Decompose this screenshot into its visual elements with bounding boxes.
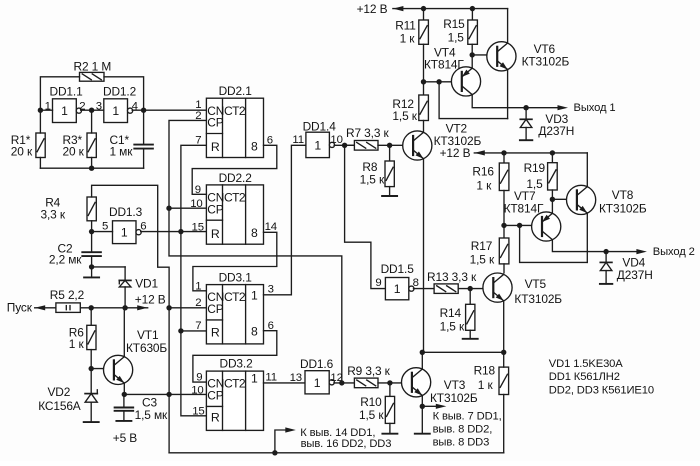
- svg-text:11: 11: [292, 134, 304, 146]
- svg-text:8: 8: [251, 139, 258, 153]
- capacitor C1* 1 uF: [110, 133, 153, 158]
- wire R13 to VT5 base: [458, 286, 493, 291]
- common tick below R8: [382, 187, 397, 196]
- svg-text:CP: CP: [207, 389, 223, 403]
- svg-text:CT2: CT2: [224, 191, 246, 205]
- common tick below R10: [382, 423, 397, 433]
- transistor VT5 KT3102B: [483, 273, 562, 306]
- wire R1 leads: [39, 110, 41, 168]
- transistor VT1 KT630B: [104, 328, 168, 384]
- svg-text:DD3.1: DD3.1: [219, 271, 253, 285]
- svg-text:1: 1: [121, 226, 128, 240]
- resistor R13 3.3 k: [427, 270, 477, 293]
- svg-text:R2 1 M: R2 1 M: [74, 59, 112, 73]
- svg-text:DD1.3: DD1.3: [109, 205, 143, 219]
- svg-text:1: 1: [251, 289, 258, 303]
- wire clock enable net DD2 (CP): [166, 120, 341, 383]
- resistor R5 2.2: [50, 288, 85, 312]
- svg-text:КТ3102Б: КТ3102Б: [522, 55, 570, 69]
- resistor R1* 20 k: [11, 133, 45, 159]
- svg-text:CT2: CT2: [224, 104, 246, 118]
- wire DD1.3 output to reset net: [141, 229, 207, 234]
- wire R4 top to +5V net: [92, 185, 170, 453]
- transistor VT6 KT3102B: [487, 42, 570, 71]
- parts list note: [549, 358, 654, 397]
- svg-text:R16: R16: [472, 164, 494, 178]
- wire +5V net to DD3.1 CP: [166, 305, 206, 310]
- DD3.1 pin labels: [195, 280, 274, 332]
- svg-text:VT8: VT8: [612, 188, 634, 202]
- svg-text:VD1 1.5KE30A: VD1 1.5KE30A: [549, 358, 623, 370]
- svg-text:1: 1: [314, 376, 321, 390]
- wire R19 bottom to VT7 emitter and VT8 base: [550, 190, 577, 213]
- svg-text:VD2: VD2: [48, 385, 71, 399]
- Пуск label and arrow: [7, 300, 45, 314]
- svg-text:VD1: VD1: [135, 276, 158, 290]
- svg-text:1: 1: [195, 280, 201, 292]
- wire R17 bottom to VT5 collector: [503, 264, 505, 273]
- svg-text:R: R: [211, 410, 220, 424]
- resistor R9 3.3 k: [347, 364, 390, 388]
- svg-text:8: 8: [413, 277, 419, 289]
- svg-text:R: R: [211, 227, 220, 241]
- resistor R2 1 M: [74, 59, 112, 81]
- svg-text:DD1.4: DD1.4: [303, 119, 337, 133]
- svg-text:8: 8: [251, 226, 258, 240]
- resistor R14 1.5 k: [440, 289, 475, 334]
- svg-text:R5 2,2: R5 2,2: [50, 288, 85, 302]
- counter DD3.1: [206, 271, 263, 344]
- +12V stage2 arrow: [474, 150, 485, 155]
- wire VT8 emitter down: [586, 213, 588, 262]
- svg-text:15: 15: [192, 221, 204, 233]
- wire +5V node to DD3.2 CP: [124, 392, 206, 397]
- svg-text:3,3 к: 3,3 к: [41, 207, 66, 221]
- wire DD1.4 output node: [334, 143, 354, 148]
- svg-text:R13 3,3 к: R13 3,3 к: [427, 270, 477, 284]
- resistor R18 1 k: [474, 364, 509, 395]
- wire oscillator bottom rail: [40, 166, 143, 171]
- svg-text:1,5: 1,5: [448, 31, 465, 45]
- transistor VT8 KT3102B: [567, 185, 647, 215]
- inverter DD1.4: [303, 119, 337, 157]
- svg-text:1: 1: [251, 371, 258, 385]
- diode VD1 (1.5KE30A): [119, 267, 158, 308]
- svg-text:+5 В: +5 В: [113, 431, 138, 445]
- wire CP to DD2.2: [169, 207, 206, 209]
- svg-text:20 к: 20 к: [63, 145, 85, 159]
- svg-text:CP: CP: [207, 302, 223, 316]
- DD3.2 pin labels: [191, 371, 277, 417]
- svg-text:DD1.6: DD1.6: [300, 357, 334, 371]
- svg-text:5: 5: [102, 221, 108, 233]
- DD2.2 pin labels: [190, 184, 277, 233]
- resistor R6 1 k: [69, 308, 96, 351]
- resistor R19 1.5: [524, 153, 558, 191]
- DD1.6 pin labels: [290, 372, 343, 384]
- transistor VT3 KT3102B: [402, 368, 478, 405]
- wire VT7 base node: [501, 191, 542, 239]
- transistor VT4 KT814G (PNP): [424, 46, 481, 96]
- output 2 arrow and label: [636, 246, 694, 258]
- wire VT7 collector to output 2 line: [552, 240, 638, 255]
- svg-text:1: 1: [394, 282, 401, 296]
- svg-text:R10: R10: [360, 395, 382, 409]
- inverter DD1.1: [50, 84, 84, 122]
- svg-text:DD3.2: DD3.2: [220, 357, 254, 371]
- svg-text:1,5 к: 1,5 к: [392, 109, 417, 123]
- svg-text:КТ3102Б: КТ3102Б: [514, 292, 562, 306]
- wire R2 right lead: [104, 77, 144, 110]
- svg-text:КТ630Б: КТ630Б: [126, 341, 167, 355]
- wire reset to DD3.1 R: [181, 330, 207, 332]
- wire VT1 collector: [123, 308, 125, 357]
- svg-text:КТ3102Б: КТ3102Б: [599, 201, 647, 215]
- arrow to ground pins (K vyv.7 DD1): [422, 404, 501, 449]
- svg-text:1,5 к: 1,5 к: [360, 173, 385, 187]
- resistor R11 1 k: [395, 9, 428, 46]
- svg-text:R15: R15: [443, 17, 465, 31]
- diode VD3 D237N: [520, 108, 574, 141]
- wire R12 bottom to VT2 collector: [423, 121, 425, 133]
- common tick below VD2: [84, 421, 99, 423]
- wire DD1.4 output to DD1.5 input: [345, 145, 386, 288]
- svg-text:R: R: [211, 326, 220, 340]
- svg-text:выв. 8 DD3: выв. 8 DD3: [433, 437, 490, 449]
- svg-text:2,2 мк: 2,2 мк: [49, 253, 82, 267]
- svg-text:1,5 к: 1,5 к: [470, 252, 495, 266]
- wire VT4 collector to output 1 line: [472, 95, 557, 111]
- wire C2 bottom node: [89, 256, 125, 277]
- common tick below VD4: [600, 283, 612, 285]
- svg-text:9: 9: [375, 277, 381, 289]
- svg-text:R18: R18: [474, 364, 496, 378]
- diode VD4 D237N: [600, 252, 652, 284]
- svg-text:К выв. 7 DD1,: К выв. 7 DD1,: [433, 410, 502, 422]
- svg-text:13: 13: [290, 372, 302, 384]
- svg-text:CT2: CT2: [224, 290, 246, 304]
- wire R15 bottom to VT4 emitter and VT6 base: [470, 44, 498, 68]
- DD1.1 pin labels: [45, 100, 86, 112]
- svg-text:VT5: VT5: [525, 277, 547, 291]
- +12V rail stage 2: [474, 150, 587, 155]
- svg-text:14: 14: [265, 221, 277, 233]
- svg-text:DD2, DD3 К561ИЕ10: DD2, DD3 К561ИЕ10: [549, 385, 654, 397]
- capacitor C2 2.2 uF: [49, 241, 101, 266]
- svg-text:6: 6: [140, 221, 146, 233]
- common tick below C3 (+5 V): [113, 421, 138, 445]
- wire VT3 emitter node: [420, 396, 425, 434]
- resistor R10 1.5 k: [359, 383, 395, 424]
- svg-text:3: 3: [268, 283, 274, 295]
- common tick below VD3: [520, 139, 532, 141]
- svg-text:1 к: 1 к: [400, 31, 416, 45]
- wire R18 leads: [503, 352, 505, 453]
- svg-text:+12 В: +12 В: [135, 293, 166, 307]
- svg-text:R19: R19: [524, 161, 546, 175]
- resistor R7 3.3 k: [345, 126, 390, 150]
- resistor R3* 20 k: [63, 133, 97, 159]
- svg-text:1: 1: [314, 138, 321, 152]
- zener VD2 KC156A: [38, 385, 97, 422]
- wire DD2.2 out8 cascade to DD3.1 CN: [193, 232, 277, 290]
- DD2.1 pin labels: [195, 99, 273, 146]
- svg-text:Выход 1: Выход 1: [574, 102, 616, 114]
- +12V top label and arrow: [357, 2, 404, 16]
- wire C1 leads: [143, 110, 145, 168]
- wire reset net R line: [178, 145, 206, 416]
- inverter DD1.3: [109, 205, 143, 243]
- svg-text:R: R: [211, 140, 220, 154]
- wire VT4 base node: [421, 44, 462, 95]
- output 1 arrow and label: [558, 102, 616, 114]
- svg-text:1 к: 1 к: [69, 337, 85, 351]
- svg-text:7: 7: [195, 320, 201, 332]
- svg-text:R14: R14: [440, 306, 462, 320]
- DD1.2 pin labels: [96, 100, 138, 112]
- wire R3 leads: [91, 110, 93, 168]
- wire Пуск line: [35, 305, 148, 310]
- svg-text:1 мк: 1 мк: [110, 145, 134, 159]
- wire +12V to VT6 collector: [507, 9, 509, 43]
- svg-text:Пуск: Пуск: [7, 300, 33, 314]
- counter DD2.2: [206, 171, 263, 244]
- wire DD2.1 out8 cascade to DD2.2 CN: [192, 145, 277, 194]
- wire DD3.1 out1 to DD1.4 input: [264, 145, 306, 294]
- svg-text:10: 10: [330, 134, 342, 146]
- wire VT2 emitter to VT3 collector: [423, 159, 425, 353]
- svg-text:+12 В: +12 В: [440, 146, 471, 160]
- wire VT3 collector node: [420, 350, 425, 369]
- svg-text:КТ814Г: КТ814Г: [504, 201, 544, 215]
- wire +12V2 to VT8 collector: [586, 153, 588, 187]
- common tick below VT3 emitter: [415, 433, 430, 435]
- +12V arrow mid-left: [135, 293, 166, 311]
- svg-text:КТ3102Б: КТ3102Б: [430, 391, 478, 405]
- wire R6 bottom to VT1 base and VD2: [89, 350, 114, 394]
- svg-text:6: 6: [267, 134, 273, 146]
- common tick below R14: [463, 330, 478, 339]
- wire bottom +5V rail: [169, 450, 504, 455]
- svg-text:20 к: 20 к: [11, 145, 33, 159]
- svg-text:1 к: 1 к: [476, 178, 492, 192]
- svg-text:VT3: VT3: [444, 378, 466, 392]
- svg-text:R9 3,3 к: R9 3,3 к: [347, 364, 390, 378]
- wire VT3 collector to VT5 emitter / R18: [422, 350, 506, 355]
- wire DD1.3 input node: [89, 221, 113, 252]
- svg-text:1: 1: [61, 104, 68, 118]
- resistor R15 1.5: [443, 9, 477, 45]
- svg-text:CP: CP: [207, 202, 223, 216]
- transistor VT2 KT3102B: [403, 122, 482, 160]
- svg-text:+12 В: +12 В: [357, 2, 388, 16]
- wire R9 to VT3 base: [378, 380, 412, 385]
- wire VT5 emitter down to R18 node: [503, 301, 505, 352]
- wire oscillator signal line: [38, 108, 207, 113]
- resistor R17 1.5 k: [470, 238, 509, 266]
- arrow to power pins (K vyv.14 DD1): [275, 427, 391, 453]
- svg-text:Д237Н: Д237Н: [538, 124, 574, 138]
- svg-text:R7 3,3 к: R7 3,3 к: [346, 126, 389, 140]
- DD1.4 pin labels: [292, 134, 342, 146]
- svg-text:DD1.1: DD1.1: [50, 84, 84, 98]
- wire VT1 emitter to +5V node: [122, 383, 127, 397]
- svg-text:выв. 8 DD2,: выв. 8 DD2,: [433, 423, 493, 435]
- svg-text:1,5 мк: 1,5 мк: [135, 408, 168, 422]
- transistor VT7 KT814G (PNP): [504, 189, 561, 241]
- inverter DD1.5: [381, 262, 415, 300]
- DD1.3 pin labels: [102, 221, 146, 233]
- wire DD1.5 output to R13: [414, 288, 435, 290]
- svg-text:R17: R17: [471, 239, 493, 253]
- svg-text:CT2: CT2: [224, 377, 246, 391]
- +12V top rail: [393, 6, 508, 11]
- capacitor C3 1.5 uF: [115, 394, 168, 422]
- wire DD3.1 out8 cascade to DD3.2 CN: [193, 331, 277, 382]
- wire DD1.6 output node: [334, 380, 355, 385]
- resistor R16 1 k: [472, 153, 509, 193]
- svg-text:DD1.5: DD1.5: [381, 262, 415, 276]
- svg-text:Д237Н: Д237Н: [617, 268, 653, 282]
- svg-text:DD2.1: DD2.1: [219, 84, 253, 98]
- svg-text:1 к: 1 к: [478, 378, 494, 392]
- DD1.5 pin labels: [375, 277, 418, 289]
- svg-text:1,5 к: 1,5 к: [359, 408, 384, 422]
- counter DD2.1: [206, 84, 263, 157]
- svg-text:DD1 К561ЛН2: DD1 К561ЛН2: [549, 371, 620, 383]
- resistor R8 1.5 k: [360, 145, 395, 186]
- svg-text:DD2.2: DD2.2: [219, 171, 253, 185]
- inverter DD1.2: [103, 84, 137, 122]
- svg-text:15: 15: [192, 406, 204, 418]
- wire R7 to VT2 base: [378, 143, 413, 148]
- +12V label stage 2: [440, 146, 471, 160]
- svg-text:1: 1: [112, 104, 119, 118]
- wire feedback VT4-base to output node: [439, 82, 508, 119]
- wire R2 left lead: [40, 77, 79, 110]
- inverter DD1.6: [300, 357, 334, 394]
- counter DD3.2: [206, 357, 263, 431]
- svg-text:КС156А: КС156А: [38, 399, 81, 413]
- svg-text:8: 8: [251, 324, 258, 338]
- svg-text:7: 7: [195, 135, 201, 147]
- common tick below C2: [84, 276, 99, 278]
- wire feedback VT7-base to output node 2: [520, 225, 588, 262]
- svg-text:11: 11: [265, 371, 277, 383]
- resistor R12 1.5 k: [392, 95, 428, 123]
- svg-text:1,5 к: 1,5 к: [440, 319, 465, 333]
- svg-text:выв. 16 DD2, DD3: выв. 16 DD2, DD3: [301, 438, 392, 450]
- wire VT6 emitter down: [507, 70, 509, 119]
- wire DD3.2 out1 to DD1.6 input: [264, 382, 306, 384]
- resistor R4 3.3 k: [41, 195, 97, 221]
- svg-text:КТ814Г: КТ814Г: [424, 57, 464, 71]
- svg-text:DD1.2: DD1.2: [103, 84, 137, 98]
- svg-text:Выход 2: Выход 2: [653, 246, 695, 258]
- svg-text:CP: CP: [207, 116, 223, 130]
